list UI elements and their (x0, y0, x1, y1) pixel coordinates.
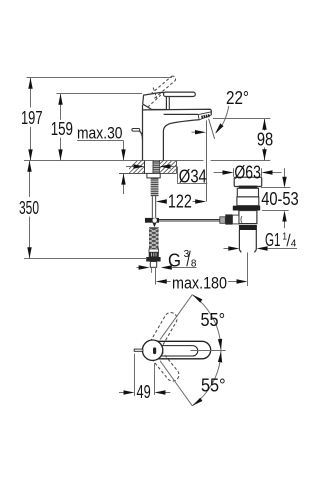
svg-text:55°: 55° (201, 310, 226, 330)
svg-text:8: 8 (191, 258, 197, 270)
svg-text:max.180: max.180 (172, 275, 227, 293)
svg-text:Ø63: Ø63 (234, 163, 261, 183)
svg-text:40-53: 40-53 (261, 189, 299, 209)
svg-text:G: G (168, 250, 181, 270)
svg-text:49: 49 (137, 382, 151, 402)
svg-text:98: 98 (257, 130, 273, 150)
svg-text:Ø34: Ø34 (179, 167, 207, 187)
svg-text:350: 350 (19, 198, 39, 218)
svg-text:22°: 22° (226, 88, 249, 108)
svg-text:1: 1 (282, 231, 287, 243)
svg-text:max.30: max.30 (77, 124, 123, 142)
svg-text:G1: G1 (265, 230, 281, 250)
svg-text:197: 197 (21, 108, 43, 128)
svg-text:4: 4 (291, 237, 297, 249)
svg-text:55°: 55° (201, 376, 226, 396)
svg-text:122: 122 (168, 192, 192, 212)
svg-text:159: 159 (51, 119, 73, 139)
